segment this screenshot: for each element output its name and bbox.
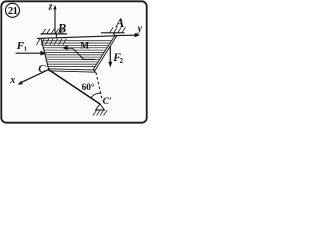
svg-text:2: 2 xyxy=(120,57,124,65)
svg-text:M: M xyxy=(80,41,89,51)
svg-text:60°: 60° xyxy=(82,82,95,93)
svg-text:1: 1 xyxy=(24,46,27,53)
svg-text:C: C xyxy=(38,63,46,75)
svg-text:x: x xyxy=(9,75,15,86)
svg-text:y: y xyxy=(137,23,143,34)
svg-text:z: z xyxy=(48,2,53,13)
svg-text:B: B xyxy=(57,22,66,36)
svg-text:A: A xyxy=(115,16,124,30)
svg-text:C′: C′ xyxy=(103,97,112,107)
svg-text:21: 21 xyxy=(8,6,18,17)
